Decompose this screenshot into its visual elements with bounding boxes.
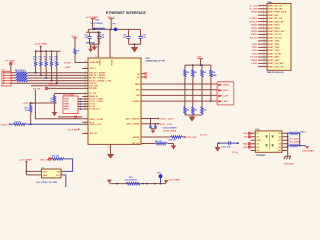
junction [97, 31, 99, 33]
svg-text:MDC: MDC [136, 90, 141, 92]
port group box ETH [217, 82, 234, 105]
wire CRS [11, 82, 82, 84]
svg-text:RXD0: RXD0 [251, 25, 258, 27]
wire osc out [61, 175, 66, 187]
resistor R13 [44, 51, 48, 79]
svg-text:RXCLK: RXCLK [250, 21, 258, 23]
wire RXER [28, 77, 83, 79]
NC pin X marks right [144, 72, 146, 78]
no-ERC marker [248, 146, 250, 148]
junction [142, 183, 144, 185]
junction [40, 50, 42, 52]
wire MDC [141, 89, 218, 91]
wire [10, 65, 12, 71]
ferrite bead FB3 [288, 131, 307, 135]
junction [192, 64, 194, 66]
resistor R12 [39, 51, 43, 76]
svg-text:R35 10K: R35 10K [169, 139, 177, 141]
resistor R26 lower [192, 90, 198, 115]
svg-text:nRST_1: nRST_1 [89, 68, 96, 70]
ferrite bead FB2 [90, 20, 105, 30]
resistor R29 RBIAS [50, 94, 82, 113]
wire R30 to osc [61, 159, 73, 172]
wire RMII sel [141, 143, 155, 145]
svg-text:PHYAD1: PHYAD1 [133, 100, 140, 103]
ground [88, 45, 93, 53]
capacitor C16 [139, 29, 147, 44]
svg-text:TXD0: TXD0 [252, 44, 259, 46]
power arrow left [107, 180, 112, 184]
capacitor C15 [123, 29, 131, 44]
svg-text:ETHERNET INTERFACE: ETHERNET INTERFACE [106, 11, 147, 15]
svg-text:XTAL1_/_CLKIN: XTAL1_/_CLKIN [89, 118, 103, 121]
svg-text:11: 11 [85, 79, 87, 81]
svg-text:X_AD1: X_AD1 [221, 100, 229, 103]
svg-text:220@100MHZ: 220@100MHZ [90, 23, 103, 25]
svg-text:C18 0.1UF: C18 0.1UF [221, 147, 231, 149]
svg-text:A2: A2 [278, 136, 280, 139]
wire pullup rail right [185, 64, 211, 66]
svg-text:RMII: RMII [212, 75, 217, 77]
junction [218, 142, 220, 144]
svg-text:VDD2A: VDD2A [110, 60, 113, 67]
resistor R36 [155, 141, 168, 145]
junction [287, 133, 289, 135]
junction [93, 29, 95, 31]
resistor R15 [54, 51, 58, 84]
svg-text:25: 25 [85, 103, 87, 105]
svg-text:ENET_nRST: ENET_nRST [268, 60, 280, 62]
wire pullup rail [35, 50, 60, 52]
svg-text:24: 24 [85, 95, 87, 97]
svg-text:14: 14 [263, 46, 265, 48]
svg-text:ENET_TXD3: ENET_TXD3 [268, 50, 279, 52]
svg-text:RXD4: RXD4 [251, 11, 258, 14]
ground [131, 47, 139, 53]
capacitor C13 [84, 32, 92, 44]
junction [157, 123, 159, 125]
svg-text:ENET_TXD2: ENET_TXD2 [268, 47, 279, 49]
svg-text:A1: A1 [278, 132, 280, 135]
svg-text:RX_DV: RX_DV [250, 37, 258, 39]
svg-text:X_COL: X_COL [250, 5, 258, 7]
junction [200, 64, 202, 66]
U2A net labels [249, 5, 258, 65]
svg-text:16: 16 [263, 52, 265, 54]
wire RXD1b [78, 108, 82, 110]
svg-text:ENET_RX_CLK: ENET_RX_CLK [268, 18, 282, 20]
junction [30, 102, 32, 104]
svg-text:ENET_MII_COL: ENET_MII_COL [268, 5, 283, 7]
junction [110, 29, 112, 31]
svg-text:15: 15 [85, 67, 87, 69]
ground [91, 47, 97, 51]
svg-text:OSC_25MHZ_3V3_SMD: OSC_25MHZ_3V3_SMD [36, 182, 58, 184]
svg-text:TP9: TP9 [157, 173, 160, 175]
svg-text:TSW-110-08-G-D: TSW-110-08-G-D [267, 72, 284, 74]
svg-text:14: 14 [85, 61, 87, 63]
svg-text:LED1_/_REGOFF: LED1_/_REGOFF [125, 118, 140, 120]
IC U12 TVS body [255, 131, 282, 152]
junction [146, 183, 148, 185]
svg-text:CLKIN: CLKIN [64, 62, 71, 64]
svg-text:15: 15 [263, 49, 265, 51]
IC U10 LAN8720A body [88, 58, 141, 144]
wire CLKOUT [58, 116, 82, 118]
svg-text:ENET_LED_CFG: ENET_LED_CFG [268, 66, 284, 68]
svg-text:CHASSIS: CHASSIS [284, 162, 294, 165]
wire RX_ER [48, 87, 83, 89]
resistor RN1b [16, 74, 28, 76]
wire right cap pair bottom [129, 44, 141, 47]
junction [237, 142, 239, 144]
svg-text:18: 18 [263, 59, 265, 61]
svg-text:23: 23 [85, 100, 87, 102]
U2A pin numbers [263, 4, 265, 67]
svg-text:FB2: FB2 [95, 20, 99, 22]
svg-text:TD+: TD+ [243, 133, 248, 135]
junction [287, 136, 289, 138]
svg-text:RX_ERR: RX_ERR [89, 88, 97, 90]
svg-text:ENET_RXD3_AD2: ENET_RXD3_AD2 [268, 30, 284, 33]
junction [26, 171, 28, 173]
no-ERC X on XTAL1 wire [74, 116, 76, 118]
svg-text:ENET_RXER_RXD4: ENET_RXER_RXD4 [268, 11, 286, 14]
resistor R30 [51, 156, 64, 161]
svg-text:10: 10 [85, 77, 87, 79]
junction [287, 143, 289, 145]
svg-text:3V3_LANA: 3V3_LANA [289, 141, 301, 144]
U10 left pin numbers [85, 61, 87, 134]
svg-text:LINK_LED: LINK_LED [160, 119, 174, 121]
wire XTAL2 [26, 123, 82, 125]
resistor R37 [150, 118, 152, 129]
svg-text:ENET_CLK_MAC: ENET_CLK_MAC [268, 62, 284, 65]
svg-text:ENET_MDIO: ENET_MDIO [268, 57, 280, 59]
svg-text:RD-: RD- [244, 147, 248, 149]
U10 left pin names [89, 62, 112, 135]
wire TXD0 [78, 98, 82, 100]
wire LED1 [141, 118, 158, 120]
U10 right pin names [125, 74, 140, 145]
svg-text:X_nINT: X_nINT [221, 96, 229, 98]
power port +3.3V_ENET [85, 17, 98, 30]
junction [299, 145, 301, 147]
U12 right bus wire [287, 133, 289, 150]
resistor R21 [184, 65, 190, 85]
svg-text:RX_ER: RX_ER [33, 88, 41, 90]
wire nINT [141, 94, 218, 96]
svg-text:A3: A3 [278, 142, 280, 145]
wire LED resistor rail [151, 129, 156, 131]
svg-text:nRST: nRST [65, 67, 71, 69]
svg-text:19: 19 [85, 132, 87, 134]
junction [80, 108, 82, 110]
no-ERC marker [49, 158, 52, 161]
svg-text:GND: GND [257, 140, 262, 142]
svg-text:TXD1: TXD1 [252, 47, 259, 49]
ferrite bead FB4 [288, 145, 299, 147]
no-ERC marker [45, 87, 48, 90]
svg-text:nINTSEL: nINTSEL [132, 137, 140, 139]
svg-text:RXD1: RXD1 [64, 109, 69, 111]
svg-text:ENET_RXD2: ENET_RXD2 [268, 28, 279, 30]
svg-text:LED2_/_INTSEL: LED2_/_INTSEL [126, 124, 140, 126]
wire EN [26, 174, 41, 176]
svg-text:ENET_RXD0_ER: ENET_RXD0_ER [268, 21, 284, 23]
svg-text:220@100MHZ: 220@100MHZ [125, 180, 138, 182]
svg-text:RX_DV_/_MODE2_/_CTRL: RX_DV_/_MODE2_/_CTRL [89, 80, 112, 82]
resistor R25 lower [184, 84, 190, 115]
junction [45, 50, 47, 52]
resistor RN1c [16, 77, 28, 79]
svg-text:TX_EN: TX_EN [250, 57, 258, 59]
svg-text:D4: D4 [257, 146, 259, 149]
svg-text:19: 19 [263, 62, 265, 64]
capacitor C18 [221, 141, 231, 149]
svg-text:TX_CT: TX_CT [200, 134, 208, 136]
svg-text:TX_A_EN: TX_A_EN [67, 129, 77, 132]
svg-text:ETH_INT: ETH_INT [186, 137, 198, 139]
wire REF_CLK into U10 [75, 62, 82, 64]
svg-text:ENET_MDC: ENET_MDC [268, 15, 279, 17]
svg-text:RD+: RD+ [243, 144, 248, 146]
wire MDIO [141, 83, 218, 85]
svg-text:GND: GND [43, 175, 48, 177]
svg-text:12: 12 [85, 82, 87, 84]
svg-text:LOW=100MBPS: LOW=100MBPS [163, 128, 178, 130]
svg-text:ENET_MII_CRS: ENET_MII_CRS [268, 9, 283, 11]
power net +3.3V_ENET osc [19, 159, 32, 175]
svg-text:10: 10 [263, 33, 265, 35]
svg-text:R30 33R: R30 33R [52, 156, 60, 158]
junction [80, 106, 82, 108]
wire RN1 inputs [11, 73, 16, 81]
svg-text:ENET_TX_CLK: ENET_TX_CLK [268, 37, 282, 39]
no-ERC marker [9, 62, 12, 65]
svg-text:ENET_RXD1: ENET_RXD1 [268, 25, 279, 27]
junction [51, 50, 53, 52]
svg-text:TP6: TP6 [112, 23, 115, 25]
junction [299, 133, 301, 135]
chassis ground [284, 156, 291, 159]
svg-text:13: 13 [263, 43, 265, 45]
svg-text:TX_A: TX_A [232, 151, 238, 154]
ground [189, 117, 196, 122]
wire RXD0 [28, 72, 83, 74]
wire bottom rail [109, 183, 166, 185]
svg-text:D3: D3 [257, 143, 259, 145]
U12 internal diodes [266, 134, 274, 150]
svg-text:+3V3_ENET: +3V3_ENET [302, 151, 315, 153]
resistor RN1d [16, 79, 28, 81]
U10 left pin stubs [82, 63, 88, 134]
svg-text:D2: D2 [257, 137, 259, 139]
junction [9, 123, 11, 125]
svg-text:TPD4E05: TPD4E05 [256, 154, 266, 157]
svg-text:22: 22 [85, 98, 87, 100]
resistor R23 [201, 65, 207, 96]
U10 bottom pin PAD [110, 144, 112, 154]
resistor R24 [210, 65, 216, 102]
svg-text:27: 27 [85, 108, 87, 110]
svg-text:21: 21 [85, 92, 87, 94]
wire RXD1 [28, 74, 83, 76]
U12 pin names [257, 133, 262, 152]
oscillator X1 [42, 167, 62, 178]
junction [157, 118, 159, 120]
wire VDDA node [88, 28, 140, 30]
power port +3V3_ENET right [302, 146, 315, 153]
svg-text:12.1K: 12.1K [25, 110, 31, 112]
svg-text:+3V3_ENET: +3V3_ENET [168, 180, 181, 182]
svg-text:20: 20 [263, 65, 265, 67]
svg-text:X_MDIO: X_MDIO [221, 85, 230, 87]
svg-text:3V3_LAN: 3V3_LAN [289, 138, 299, 141]
junction [287, 146, 289, 148]
junction [30, 123, 32, 125]
svg-text:A4: A4 [278, 146, 280, 149]
svg-text:RX_ER_/_PHYAD0: RX_ER_/_PHYAD0 [89, 77, 105, 80]
svg-text:RXD3: RXD3 [251, 34, 258, 36]
pullup resistors R11-R15 [33, 51, 58, 84]
resistor R31 [25, 103, 32, 124]
wire XTAL1 [35, 90, 82, 119]
junction [201, 64, 203, 66]
wire VDDA to U10 [109, 29, 111, 58]
svg-text:D1: D1 [257, 133, 259, 135]
ferrite bead FB1 [125, 177, 141, 185]
svg-text:CLKIN_REF: CLKIN_REF [89, 62, 100, 64]
wire PHYAD1 [141, 100, 218, 102]
wire VDDIO to U10 [97, 32, 99, 58]
junction [116, 183, 118, 185]
junction [184, 136, 186, 138]
resistor R14 [49, 51, 53, 81]
resistor R11 [33, 51, 37, 74]
svg-text:LAN8720AI-CP-TR: LAN8720AI-CP-TR [146, 60, 165, 63]
svg-text:33: 33 [108, 147, 110, 149]
svg-text:ENET_TX_EN: ENET_TX_EN [268, 53, 281, 55]
testpoint TP6 [112, 23, 117, 31]
svg-text:CRS_DV: CRS_DV [49, 84, 58, 86]
wire TXEN [78, 103, 82, 105]
U2A pin stubs [258, 6, 267, 67]
resistor RN1a [16, 72, 28, 74]
svg-text:X_CRS: X_CRS [250, 9, 258, 11]
resistor R27 lower [201, 95, 207, 115]
svg-text:FB1: FB1 [129, 177, 133, 179]
power port VDD_A [107, 16, 115, 30]
svg-text:MDIO: MDIO [135, 84, 140, 86]
no-ERC marker [248, 143, 250, 145]
wire center tap [218, 142, 239, 144]
connector P2 [2, 70, 11, 86]
svg-text:AUTO_MDIX: AUTO_MDIX [163, 130, 176, 133]
svg-text:TX_CLK: TX_CLK [89, 93, 97, 95]
capacitor C14 [97, 32, 105, 44]
wire VCC [26, 170, 41, 172]
junction [90, 46, 92, 48]
junction [80, 98, 82, 100]
wire cap rail [86, 29, 101, 32]
junction [35, 50, 37, 52]
svg-text:TX_EN_CLK: TX_EN_CLK [89, 109, 100, 111]
wire [168, 144, 174, 146]
group box PIN_SWAP [63, 93, 78, 113]
resistor R22 [192, 65, 198, 91]
wire RXD0b [78, 106, 82, 108]
junction [134, 43, 136, 45]
svg-text:GNDPAD: GNDPAD [86, 42, 96, 45]
junction [160, 183, 162, 185]
svg-text:X_MDC: X_MDC [221, 90, 229, 92]
svg-text:11: 11 [263, 36, 265, 38]
svg-text:X_MDC: X_MDC [249, 18, 257, 20]
svg-text:ENET_TXD0: ENET_TXD0 [268, 41, 279, 43]
ground [215, 143, 221, 152]
svg-text:ENET_TXD1: ENET_TXD1 [268, 44, 279, 46]
wire FB right bus [299, 133, 306, 145]
svg-text:12: 12 [263, 39, 265, 41]
power port +3V3 pullup rail [196, 57, 203, 66]
testpoint TP9 [157, 173, 162, 184]
svg-text:TD-: TD- [244, 137, 248, 139]
wire nINT out [141, 136, 171, 138]
wire [183, 136, 185, 138]
resistor R33 [74, 38, 80, 63]
ground [52, 112, 57, 116]
power net +3.3V_ENET pullups [35, 44, 48, 52]
wire RXDV [28, 80, 83, 82]
resistor R35 [169, 136, 183, 142]
ground [151, 130, 155, 133]
svg-text:TXD_CLK: TXD_CLK [132, 143, 141, 145]
svg-text:TXD2: TXD2 [252, 50, 259, 52]
svg-text:TXD3: TXD3 [252, 53, 259, 55]
svg-text:XTAL2: XTAL2 [1, 124, 9, 127]
svg-text:RXD2: RXD2 [251, 31, 258, 33]
resistor R38 [155, 123, 157, 129]
wire lower rail [185, 115, 202, 117]
svg-text:XTAL2_/_CLK: XTAL2_/_CLK [89, 123, 101, 126]
svg-text:ENET_RX_DV: ENET_RX_DV [268, 34, 281, 36]
svg-text:26: 26 [85, 105, 87, 107]
svg-text:+3.3V_ENET: +3.3V_ENET [35, 44, 48, 46]
wire TXD1 [78, 101, 82, 103]
wire chassis [287, 150, 289, 156]
junction [287, 139, 289, 141]
ground [171, 145, 177, 149]
wire COL [31, 85, 82, 87]
svg-text:R36 1K: R36 1K [155, 141, 162, 143]
junction [80, 103, 82, 105]
svg-text:OSC_EN: OSC_EN [40, 159, 49, 161]
power port +1V2 on R33 [71, 36, 77, 38]
port TX_CLK arrow [67, 128, 80, 131]
ground [107, 154, 114, 159]
junction [80, 101, 82, 103]
U12 right pin stubs [282, 133, 287, 150]
U2A pin names [268, 5, 286, 68]
svg-text:RXD1: RXD1 [251, 28, 258, 30]
no-ERC marker [248, 136, 250, 138]
wire [31, 102, 57, 104]
wire cap pair bottom [90, 44, 100, 46]
svg-text:13: 13 [85, 84, 87, 86]
svg-text:SPD_LED: SPD_LED [160, 124, 173, 126]
svg-text:17: 17 [263, 55, 265, 57]
